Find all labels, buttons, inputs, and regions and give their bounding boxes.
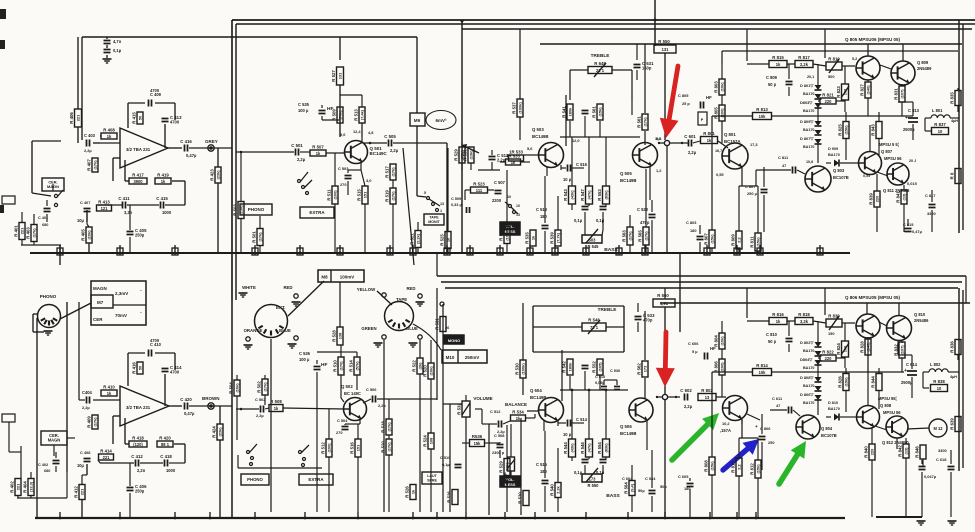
wire stub (446, 245, 448, 253)
svg-text:C 602: C 602 (680, 388, 692, 393)
svg-text:680: 680 (42, 223, 48, 227)
wire stub bottom (119, 512, 121, 518)
pot arrow R546 (588, 320, 600, 334)
svg-text:3300: 3300 (927, 211, 936, 216)
wire (818, 100, 820, 102)
wire (164, 124, 166, 148)
wire (901, 84, 903, 86)
wire stub (819, 245, 821, 253)
svg-text:1k: 1k (107, 134, 112, 139)
svg-text:C 506: C 506 (366, 387, 377, 392)
wire top L (32, 140, 61, 142)
svg-text:R 547: R 547 (580, 189, 585, 201)
resistor R 553 (603, 186, 610, 204)
svg-text:R 563: R 563 (622, 230, 627, 242)
diode (815, 94, 822, 99)
svg-text:5,6: 5,6 (527, 146, 533, 151)
svg-text:R 402: R 402 (10, 481, 15, 493)
svg-text:173: 173 (642, 365, 647, 372)
wire ext drop (270, 339, 272, 512)
svg-text:C 513: C 513 (536, 207, 548, 212)
wire (631, 465, 633, 480)
wire (430, 340, 432, 363)
svg-text:R 405: R 405 (81, 229, 86, 241)
svg-text:R 534: R 534 (512, 410, 524, 415)
resistor R 414 (99, 454, 114, 460)
resistor R 524 (428, 433, 434, 449)
svg-text:C 412: C 412 (131, 454, 143, 459)
resistor R 542 (567, 359, 573, 375)
resistor R 532 (462, 401, 470, 417)
wire R550 (654, 44, 656, 45)
svg-text:70mV: 70mV (115, 313, 127, 318)
capacitor (104, 40, 111, 42)
svg-text:C 516: C 516 (536, 462, 548, 467)
capacitor (687, 483, 694, 485)
capacitor C409 (128, 102, 145, 104)
svg-text:(13,3): (13,3) (28, 481, 33, 492)
resistor R 804 (719, 333, 725, 349)
wire x232 lower vertical (231, 300, 233, 518)
svg-text:R 831: R 831 (894, 88, 899, 100)
svg-text:R 414: R 414 (100, 449, 112, 454)
svg-text:M 12: M 12 (933, 426, 943, 431)
wire Q802 emitter (741, 419, 743, 438)
capacitor (86, 140, 88, 147)
resistor R 420 (157, 441, 173, 447)
junction dots tone bottom (571, 389, 574, 392)
wire stub bottom (304, 512, 306, 518)
wire (817, 321, 819, 342)
svg-text:C 510: C 510 (440, 455, 450, 460)
resistor R 843 (876, 122, 882, 139)
svg-text:R 836: R 836 (950, 341, 955, 353)
svg-text:WHITE: WHITE (242, 285, 256, 290)
wire stub (529, 245, 531, 253)
wire stub (644, 245, 646, 253)
svg-text:R 811: R 811 (750, 236, 755, 248)
svg-text:2,3mV: 2,3mV (115, 291, 128, 296)
svg-text:0,1µ: 0,1µ (442, 462, 450, 467)
wire (88, 243, 90, 253)
svg-text:(10k): (10k) (234, 383, 239, 393)
wire (544, 176, 546, 223)
resistor R 8 (955, 169, 961, 184)
wire collector (361, 123, 363, 142)
svg-text:150p: 150p (642, 66, 652, 71)
resistor R 520 (428, 363, 434, 379)
svg-text:R 424: R 424 (212, 426, 217, 438)
capacitor (148, 350, 150, 357)
svg-text:C 418: C 418 (160, 454, 172, 459)
capacitor (614, 386, 620, 388)
pot wiper R 819 (829, 59, 839, 73)
wire stub (254, 245, 256, 253)
svg-text:10: 10 (516, 204, 520, 208)
svg-text:Q 803: Q 803 (833, 168, 845, 173)
svg-text:R 822: R 822 (822, 350, 834, 355)
svg-text:2,2µ: 2,2µ (256, 413, 264, 418)
svg-text:BC149B: BC149B (530, 395, 546, 400)
svg-text:C 604: C 604 (622, 476, 633, 481)
arrow green 1 (672, 422, 710, 460)
svg-text:R 539: R 539 (550, 232, 555, 244)
svg-text:M9: M9 (414, 118, 421, 123)
wire (689, 478, 691, 481)
wire (388, 399, 390, 419)
capacitor (372, 396, 374, 403)
label box CER. MAGN (42, 178, 64, 191)
svg-text:TREBLE: TREBLE (591, 53, 610, 58)
resistor R 824 (842, 341, 849, 357)
svg-text:R 517: R 517 (385, 166, 390, 178)
capacitor (104, 49, 111, 51)
wire (519, 29, 521, 99)
wire x437 (436, 288, 438, 400)
svg-text:(10k): (10k) (86, 230, 91, 240)
wire green drop (383, 340, 385, 512)
resistor R 645 (588, 67, 612, 74)
wire output stage top border (722, 50, 958, 52)
wire stub (554, 245, 556, 253)
resistor R 510 (338, 357, 344, 375)
svg-text:Q 807: Q 807 (881, 149, 893, 154)
wire (867, 80, 869, 82)
svg-text:C404: C404 (82, 390, 93, 395)
wire (844, 66, 846, 84)
svg-text:(7,7k): (7,7k) (555, 232, 560, 243)
svg-text:D804▽: D804▽ (800, 357, 813, 362)
svg-text:121: 121 (101, 206, 109, 211)
wire (644, 44, 646, 113)
label box CER. MAGN (41, 431, 67, 445)
svg-text:2,2µ: 2,2µ (378, 403, 386, 408)
resistor R 546 (582, 323, 606, 331)
svg-text:R 525: R 525 (440, 234, 445, 246)
transistor Q (805, 166, 831, 192)
svg-text:R 519: R 519 (385, 190, 390, 202)
svg-text:R 516: R 516 (350, 442, 355, 454)
capacitor (905, 228, 912, 230)
ground (948, 520, 957, 522)
wire (845, 368, 847, 374)
wire m12 link (907, 428, 929, 429)
resistor R 818 (795, 318, 813, 325)
svg-text:17,3: 17,3 (750, 142, 758, 147)
ground (103, 58, 112, 60)
resistor R 534 (511, 415, 526, 421)
capacitor (786, 81, 793, 83)
resistor R 527 (337, 67, 344, 85)
svg-text:R 827: R 827 (860, 84, 865, 96)
svg-text:180: 180 (690, 228, 697, 233)
wire base (236, 151, 294, 153)
label box M8 100mV (318, 270, 364, 282)
svg-text:C 618: C 618 (936, 457, 947, 462)
svg-text:BA170: BA170 (803, 384, 814, 388)
wire phono left pad (33, 313, 37, 315)
svg-text:100 µ: 100 µ (298, 108, 309, 113)
resistor R 415 (137, 112, 143, 124)
svg-text:2,2µ: 2,2µ (297, 157, 306, 162)
svg-text:R 561: R 561 (637, 116, 642, 128)
svg-text:180k: 180k (567, 362, 572, 371)
resistor R 412 (79, 485, 85, 500)
wire (763, 167, 765, 187)
capacitor (697, 236, 704, 238)
svg-text:10,6: 10,6 (806, 160, 813, 164)
resistor R549 bass pot (582, 235, 602, 243)
resistor R 811 (755, 233, 761, 251)
wire emitter (360, 162, 362, 170)
capacitor C 412 (135, 460, 137, 467)
svg-text:R536: R536 (472, 434, 483, 439)
svg-text:R 814: R 814 (756, 363, 768, 368)
wire (328, 409, 330, 439)
resistor R 836 (955, 340, 961, 355)
transistor Q (886, 416, 908, 438)
svg-text:250: 250 (768, 440, 775, 445)
svg-text:C 530: C 530 (610, 369, 620, 373)
wire (788, 64, 790, 79)
wire top frame inner (236, 23, 975, 25)
svg-text:131: 131 (662, 47, 670, 52)
wire stub (618, 245, 620, 253)
label box VOL MESS (500, 222, 520, 235)
wire base (236, 408, 259, 410)
svg-text:(17k): (17k) (92, 417, 97, 427)
ground (409, 342, 418, 344)
wire Q801 (741, 167, 743, 186)
wire (867, 337, 869, 339)
svg-text:R 535: R 535 (525, 232, 530, 244)
wire (392, 143, 394, 164)
resistor R 513 (359, 107, 365, 123)
svg-text:(17k): (17k) (262, 382, 267, 392)
wire right rail top x960 (958, 20, 960, 233)
resistor R 511 (332, 186, 338, 204)
svg-text:C 815: C 815 (903, 222, 914, 227)
wire out network 2 (911, 355, 913, 369)
wire node row 2 (656, 396, 662, 398)
svg-text:C 605: C 605 (678, 474, 689, 479)
resistor R 501 (257, 229, 263, 246)
diode (815, 395, 822, 400)
svg-text:(10k): (10k) (719, 336, 724, 346)
wire switch row (238, 467, 322, 469)
svg-text:R 541: R 541 (562, 106, 567, 118)
capacitor (84, 208, 91, 210)
svg-text:2,2µ: 2,2µ (82, 405, 90, 410)
arrow red 2 (663, 332, 669, 371)
svg-text:R 841: R 841 (896, 191, 901, 203)
measure circle M12 (929, 419, 947, 437)
svg-text:10: 10 (938, 129, 943, 134)
wire (488, 189, 494, 191)
svg-text:R 552: R 552 (592, 361, 597, 373)
resistor R 541 (567, 104, 573, 120)
resistor R 537 (517, 99, 523, 117)
svg-text:BA170: BA170 (803, 349, 814, 353)
wire (339, 85, 341, 137)
svg-text:R 801: R 801 (703, 131, 715, 136)
svg-text:R 562: R 562 (637, 363, 642, 375)
svg-text:50: 50 (137, 116, 142, 120)
svg-text:C 813: C 813 (908, 108, 920, 113)
pot arrow R545 (594, 63, 606, 77)
wire stub (339, 245, 341, 253)
resistor R 522 (417, 358, 423, 374)
wire collector (561, 350, 563, 401)
svg-text:BA170: BA170 (803, 92, 814, 96)
svg-text:R 537: R 537 (512, 102, 517, 114)
wire (732, 115, 752, 117)
svg-text:PHONO: PHONO (248, 207, 265, 212)
svg-text:50 p: 50 p (768, 82, 777, 87)
wire stub (174, 245, 176, 253)
resistor R 548 (586, 439, 593, 457)
capacitor C 411 (122, 202, 124, 209)
wire (761, 414, 763, 434)
svg-text:50: 50 (137, 366, 142, 370)
svg-text:D 801▽: D 801▽ (800, 83, 814, 88)
resistor R 639 (955, 417, 961, 432)
svg-text:R 531: R 531 (435, 318, 440, 330)
resistor R 502 (262, 379, 268, 395)
resistor R 526 (410, 485, 416, 500)
wire (506, 170, 508, 226)
wire (817, 372, 819, 377)
wire (732, 371, 752, 373)
capacitor C 406 (127, 487, 134, 489)
svg-text:2,2n: 2,2n (137, 468, 146, 473)
svg-text:C 510: C 510 (595, 375, 605, 379)
wire vertical x462 supply drop (461, 21, 463, 253)
svg-text:R 809: R 809 (731, 234, 736, 246)
wire stub (412, 245, 414, 253)
svg-text:2N5486: 2N5486 (914, 318, 929, 323)
svg-text:BC107B: BC107B (833, 175, 849, 180)
svg-text:Q 805 MPSU06 (MPSU 05): Q 805 MPSU06 (MPSU 05) (845, 37, 901, 42)
wire q805-q809 (880, 65, 891, 69)
svg-text:108: 108 (428, 437, 433, 444)
capacitor (84, 458, 91, 460)
resistor R 406 (75, 109, 82, 127)
switch contacts 3 (247, 451, 250, 454)
svg-text:3,0: 3,0 (366, 178, 371, 183)
svg-text:C 416: C 416 (180, 139, 192, 144)
wire (901, 341, 903, 343)
wire (644, 311, 646, 360)
svg-text:R 416: R 416 (132, 362, 137, 374)
svg-text:10k: 10k (759, 370, 767, 375)
svg-text:(15k): (15k) (709, 461, 714, 471)
svg-text:R 803: R 803 (714, 81, 719, 93)
svg-text:R 554: R 554 (597, 442, 602, 454)
resistor R 512 (326, 439, 332, 457)
resistor R 525 (504, 227, 510, 244)
svg-text:Q 806 MPSU05 (MPSU 05): Q 806 MPSU05 (MPSU 05) (845, 295, 901, 300)
wire stub (59, 245, 61, 253)
resistor R 835 (955, 91, 961, 106)
svg-text:20,1: 20,1 (807, 75, 814, 79)
resistor R 815 (769, 61, 787, 68)
svg-text:R 807: R 807 (704, 233, 709, 245)
svg-text:YELLOW: YELLOW (357, 287, 376, 292)
capacitor (704, 353, 706, 360)
svg-text:0,55: 0,55 (863, 174, 870, 178)
svg-text:R 521: R 521 (410, 233, 415, 245)
wire cap drop (106, 37, 108, 39)
svg-text:MPSU 55¦: MPSU 55¦ (878, 396, 897, 401)
switch tape monitor (427, 197, 430, 200)
capacitor C 531 (634, 64, 641, 66)
wire volume row (461, 143, 463, 147)
resistor R 846 (920, 445, 926, 459)
svg-text:C 514: C 514 (576, 417, 588, 422)
op-amp 3/2 TBA 231 (120, 386, 169, 426)
svg-text:(100): (100) (332, 190, 337, 200)
svg-text:(15k): (15k) (843, 377, 848, 387)
wire mid rail 3 (445, 287, 958, 289)
svg-text:1k: 1k (161, 179, 166, 184)
svg-text:R 821: R 821 (822, 93, 834, 98)
svg-text:M7: M7 (97, 300, 104, 305)
wire (876, 174, 878, 191)
svg-text:C 407: C 407 (80, 200, 90, 205)
resistor R 518 (386, 419, 392, 435)
svg-text:R 530: R 530 (515, 363, 520, 375)
svg-text:3/2 TBA 231: 3/2 TBA 231 (126, 147, 151, 152)
resistor R 837 (932, 128, 949, 135)
resistor R 803 (719, 79, 725, 95)
wire stub (389, 245, 391, 253)
resistor R 822 (820, 355, 836, 361)
wire node down (664, 400, 666, 518)
resistor R 517 (390, 164, 396, 180)
svg-text:R 818: R 818 (798, 312, 810, 317)
capacitor (314, 366, 321, 368)
svg-text:3300: 3300 (938, 448, 947, 453)
svg-text:15k: 15k (474, 441, 482, 446)
wire (788, 321, 790, 336)
svg-text:50µ: 50µ (660, 484, 667, 489)
wire (637, 303, 639, 312)
svg-text:R 825: R 825 (838, 124, 843, 136)
svg-text:C 501: C 501 (291, 143, 303, 148)
transistor Q (859, 152, 882, 175)
svg-text:R 564: R 564 (624, 482, 629, 494)
resistor R 810 (736, 458, 742, 476)
svg-text:R 842: R 842 (898, 445, 903, 457)
resistor 1R 533 (509, 155, 524, 161)
wire diode chain (817, 64, 819, 85)
wire stub bottom (664, 512, 666, 518)
capacitor (582, 365, 589, 367)
capacitor C 602 (684, 394, 686, 401)
wire to Q801 (693, 141, 700, 143)
capacitor C 414 (162, 368, 169, 370)
svg-text:D 810: D 810 (828, 401, 838, 405)
wire (957, 339, 959, 340)
wire stub (499, 245, 501, 253)
svg-text:(57k): (57k) (354, 361, 359, 371)
wire vertical returns (711, 248, 713, 253)
svg-text:(100k): (100k) (504, 229, 509, 241)
wire stub bottom (254, 512, 256, 518)
svg-text:MPSU 5 5¦: MPSU 5 5¦ (879, 142, 899, 147)
svg-text:R 808: R 808 (704, 460, 709, 472)
